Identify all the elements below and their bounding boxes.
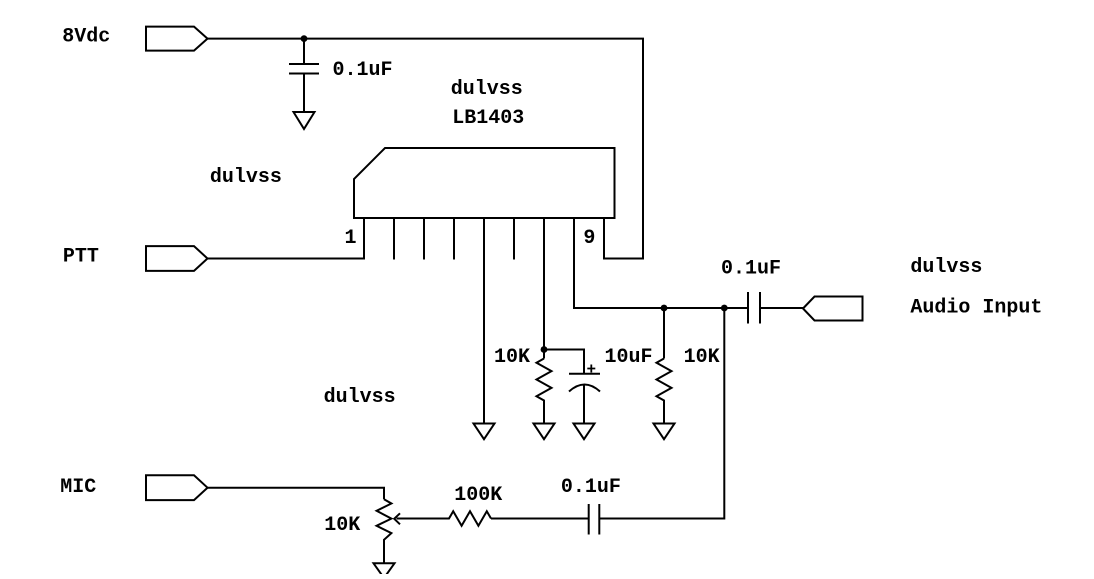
- svg-text:dulvss: dulvss: [324, 386, 396, 409]
- svg-text:10uF: 10uF: [605, 346, 653, 369]
- svg-text:0.1uF: 0.1uF: [333, 59, 393, 82]
- svg-text:PTT: PTT: [63, 246, 99, 269]
- svg-text:10K: 10K: [324, 514, 360, 537]
- svg-text:dulvss: dulvss: [910, 256, 982, 279]
- svg-text:10K: 10K: [494, 346, 530, 369]
- svg-text:8Vdc: 8Vdc: [62, 26, 110, 49]
- svg-text:100K: 100K: [454, 484, 502, 507]
- svg-text:1: 1: [345, 227, 357, 250]
- svg-text:9: 9: [583, 227, 595, 250]
- svg-text:dulvss: dulvss: [451, 78, 523, 101]
- svg-text:0.1uF: 0.1uF: [721, 258, 781, 281]
- svg-text:MIC: MIC: [60, 476, 96, 499]
- svg-text:0.1uF: 0.1uF: [561, 476, 621, 499]
- svg-text:10K: 10K: [684, 346, 720, 369]
- svg-text:dulvss: dulvss: [210, 166, 282, 189]
- svg-text:LB1403: LB1403: [452, 107, 524, 130]
- svg-text:Audio Input: Audio Input: [910, 297, 1042, 320]
